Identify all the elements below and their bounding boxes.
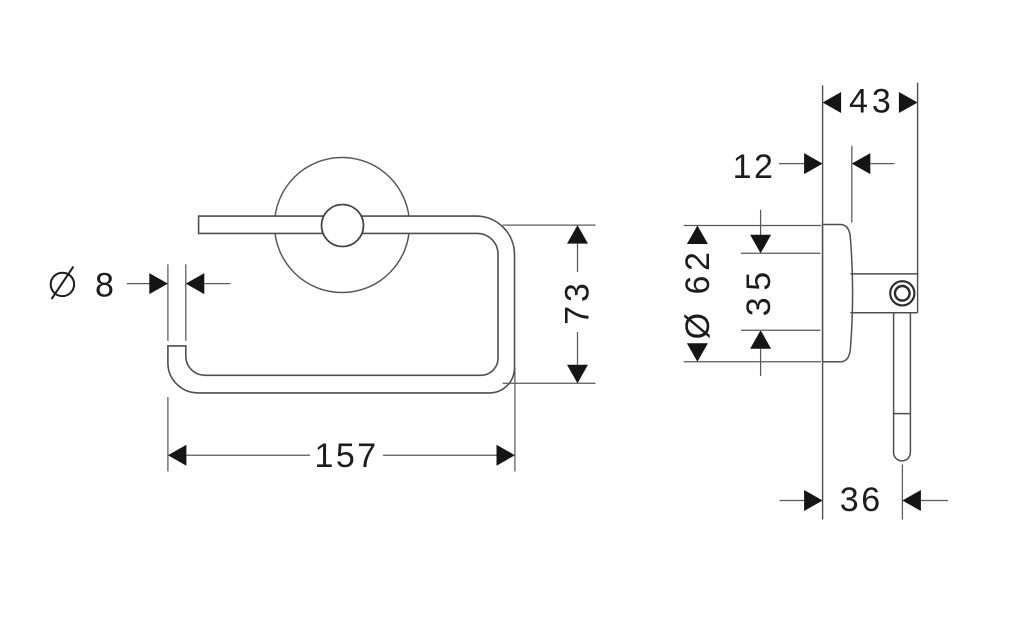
dim Ø8 left arrow — [149, 273, 168, 294]
holder rod outline (bar + open ring) — [168, 216, 515, 393]
dim 36 right tail — [921, 500, 948, 502]
dim 36 right arrow — [902, 490, 921, 511]
svg-text:36: 36 — [840, 481, 883, 519]
dim Ø8 extension line left — [167, 264, 169, 341]
dim 35 top arrow — [750, 235, 771, 254]
dim 35 bottom arrow — [750, 330, 771, 349]
dim 157 left line segment — [186, 454, 310, 456]
dim Ø8 left tail — [127, 283, 150, 285]
dim 12 right tail — [870, 163, 894, 165]
dim 157 right arrow — [497, 445, 515, 466]
pivot housing top line — [850, 273, 917, 275]
pivot screw inner circle — [895, 286, 910, 301]
svg-text:35: 35 — [740, 265, 778, 316]
svg-text:8: 8 — [95, 267, 114, 305]
pivot housing right edge / dim 43 right extension line — [917, 83, 919, 313]
hanging bar right line — [909, 313, 911, 453]
svg-text:12: 12 — [733, 148, 776, 186]
dim 12 extension line — [851, 146, 853, 223]
svg-text:157: 157 — [314, 437, 378, 475]
dim 73 top extension line — [503, 224, 596, 226]
dim Ø8 extension line right — [185, 264, 187, 341]
dim 157 right line segment — [383, 454, 497, 456]
dim 43 left arrow — [823, 92, 842, 113]
hanging bar rounded cap — [894, 453, 911, 461]
dim Ø8 right arrow — [186, 273, 205, 294]
hanging bar tick — [894, 413, 911, 415]
dim Ø8 right tail — [204, 283, 230, 285]
dim 73 top arrow — [567, 225, 588, 244]
dim 35 top extension line — [741, 252, 821, 254]
dim Ø62 bottom arrow — [687, 343, 708, 362]
dim Ø8 diameter symbol — [51, 267, 74, 300]
dim 35 upper line segment — [760, 210, 762, 235]
dim 157 right extension line — [514, 368, 516, 472]
dim 157 left arrow — [168, 445, 187, 466]
dim 73 upper line segment — [577, 244, 579, 272]
dim 36 left tail — [780, 500, 805, 502]
dim 12 right arrow — [852, 153, 871, 174]
pivot screw outer circle — [890, 281, 914, 305]
svg-text:73: 73 — [559, 279, 597, 325]
svg-text:Ø 62: Ø 62 — [679, 248, 717, 340]
dim Ø62 top arrow — [687, 226, 708, 245]
dim Ø62 top extension line — [684, 225, 821, 227]
dim 35 bottom extension line — [741, 329, 821, 331]
wall plate side profile — [823, 225, 853, 362]
mounting plate circle — [275, 158, 410, 293]
pivot hub circle — [322, 205, 364, 247]
hanging bar left line — [893, 313, 895, 453]
dim 157 left extension line — [167, 397, 169, 472]
dim Ø62 bottom extension line — [684, 361, 821, 363]
dim 73 bottom extension line — [503, 382, 596, 384]
dim 12 left tail — [779, 163, 804, 165]
dim 12 left arrow — [804, 153, 823, 174]
dim 43 right arrow — [899, 92, 918, 113]
dim 73 bottom arrow — [567, 365, 588, 384]
pivot housing bottom line — [850, 312, 917, 314]
dim 35 lower line segment — [760, 349, 762, 376]
dim 36 bar extension line — [901, 465, 903, 520]
dim 73 lower line segment — [577, 332, 579, 365]
wall line — [822, 85, 824, 519]
svg-text:43: 43 — [849, 83, 895, 121]
dim 36 left arrow — [804, 490, 823, 511]
